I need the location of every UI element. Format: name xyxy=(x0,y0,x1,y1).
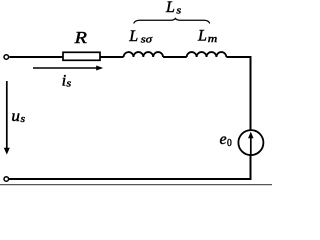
svg-text:L: L xyxy=(197,27,207,44)
svg-text:L: L xyxy=(165,0,175,16)
svg-text:L: L xyxy=(128,28,138,45)
svg-text:sσ: sσ xyxy=(141,35,153,46)
svg-text:m: m xyxy=(208,34,218,45)
svg-text:s: s xyxy=(21,114,26,125)
svg-text:R: R xyxy=(73,28,87,47)
svg-text:s: s xyxy=(66,79,71,90)
svg-text:0: 0 xyxy=(227,138,232,149)
svg-text:s: s xyxy=(176,5,181,16)
svg-text:e: e xyxy=(220,131,227,148)
svg-text:u: u xyxy=(11,108,20,125)
